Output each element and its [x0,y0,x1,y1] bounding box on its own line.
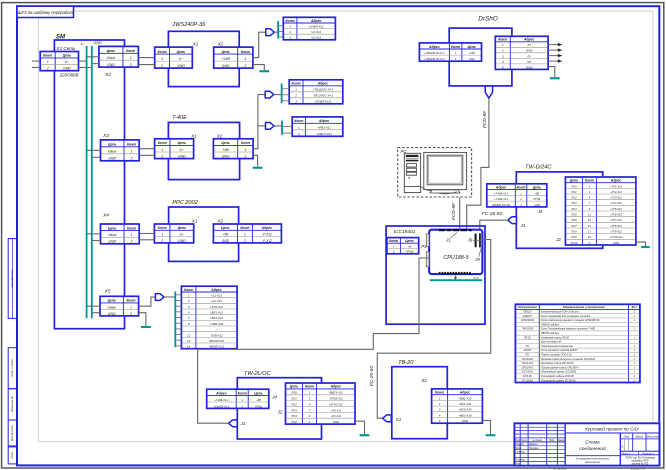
connector X2 (PPC output w/addresses) [213,224,281,243]
svg-text:Конт: Конт [435,391,444,395]
connector X5 (SM aux out) [100,296,139,316]
svg-text:FC-20-60: FC-20-60 [369,366,375,387]
plug T40 cable A [265,91,274,98]
wire bus to X4 row1 [87,233,101,235]
svg-text:Ч2-Х11: Ч2-Х11 [311,36,321,40]
wire plugB to bar3 [274,125,282,127]
wire TW2L GND to ground [355,421,365,434]
svg-text:6В/25А каб.вых: 6В/25А каб.вых [541,332,560,335]
wire FC-26-60 to CPU J6 [480,220,508,233]
svg-text:GND: GND [108,240,116,244]
svg-text:Конт: Конт [241,141,250,145]
ticks bar2 to table [282,89,290,101]
svg-text:Адрес: Адрес [261,226,273,230]
svg-text:GND: GND [222,239,230,243]
svg-text:GND: GND [108,312,116,316]
svg-text:ICC19301: ICC19301 [394,229,416,235]
dashed box PC [398,148,472,197]
svg-text:+24В: +24В [222,57,231,61]
svg-text:-7В-2Л/ОС-J4-1: -7В-2Л/ОС-J4-1 [313,94,334,98]
svg-text:X1: X1 [190,133,197,138]
svg-text:Цепь: Цепь [221,226,229,230]
connector DrShO outputs [495,36,548,69]
svg-text:ЛО5: ЛО5 [570,213,577,217]
svg-text:Цепь: Цепь [570,179,578,183]
svg-text:Адрес: Адрес [428,45,440,49]
label J1 with leader [445,232,457,242]
svg-text:–: – [215,328,218,332]
svg-text:Конт: Конт [389,239,398,243]
svg-text:ЛО10: ЛО10 [569,241,577,245]
svg-text:-Р-Х12: -Р-Х12 [262,239,272,243]
svg-text:Конт: Конт [305,385,314,389]
svg-text:Масса: Масса [636,435,644,439]
svg-text:Цепь: Цепь [108,143,116,147]
svg-text:ЛО8: ЛО8 [570,230,577,234]
svg-text:Конт: Конт [184,288,193,292]
svg-text:2: 2 [160,239,163,243]
wire SM X3 to T40 X1 row1 [139,148,154,150]
wire T40 X2 row2 to ground [253,155,258,166]
svg-text:Лист: Лист [520,439,527,442]
svg-text:CPU188-5: CPU188-5 [522,366,534,369]
svg-text:Цепь: Цепь [108,226,116,230]
svg-text:+ВУ2-Х11: +ВУ2-Х11 [210,316,224,320]
ticks bar to X5 table [175,295,181,346]
svg-text:TB-20: TB-20 [398,360,414,366]
svg-text:Блок шагового привода DrShO: Блок шагового привода DrShO [541,349,577,352]
svg-text:+ГУ4-Х12: +ГУ4-Х12 [610,201,622,205]
svg-text:Разраб.: Разраб. [515,443,524,446]
wire plug to bar [164,296,175,298]
svg-text:Т.контр.: Т.контр. [515,451,525,454]
wire FCD-9F from PC to CPU [459,197,461,230]
wire X1 to bus row2 [79,67,92,69]
wire bus to X4 row2 [92,240,101,242]
svg-text:Выходная плата TW-2L/OC: Выходная плата TW-2L/OC [541,362,574,365]
svg-text:Uвых: Uвых [107,56,116,60]
svg-text:GND: GND [613,241,619,245]
svg-text:2: 2 [392,250,395,254]
block T-40E [168,115,239,180]
ticks bar3 to table [282,127,292,134]
svg-text:+Т-40Е-Х2-2: +Т-40Е-Х2-2 [494,198,509,201]
svg-text:2: 2 [438,402,441,406]
plug JWS 24V cable [266,29,275,36]
wire DrShO GND to ground [548,67,555,78]
svg-text:X1: X1 [395,417,402,422]
svg-text:Адрес: Адрес [459,391,471,395]
svg-text:ТВ-20: ТВ-20 [524,336,531,339]
svg-text:Схема: Схема [585,440,600,446]
svg-text:FCD-9F: FCD-9F [451,202,457,220]
svg-text:соединений: соединений [579,445,606,452]
block ICC19301 [386,226,485,324]
wire X5 row2 to ground [139,313,146,326]
ground TW-2L [360,434,370,436]
wire X1 to bus row1 [79,60,87,62]
svg-text:TW-2L/OC: TW-2L/OC [521,362,533,365]
svg-text:J1: J1 [520,223,526,228]
pads CPU bottom edge connector [439,272,471,275]
connector X2 (SM out to JWS) [99,46,138,67]
svg-text:2: 2 [46,67,49,71]
svg-text:GND: GND [462,419,468,423]
svg-text:11: 11 [588,213,591,217]
svg-text:GND: GND [178,155,186,159]
svg-text:X1: X1 [191,218,198,223]
svg-text:J6: J6 [467,238,473,243]
svg-text:13: 13 [588,218,591,222]
svg-text:+ГУ6-Х12: +ГУ6-Х12 [610,213,622,217]
svg-text:2: 2 [130,157,133,161]
svg-text:+В: +В [408,244,412,248]
svg-text:DrShO: DrShO [478,16,498,23]
plug T40 cable B [266,123,275,130]
table DrShO input addresses [419,43,481,61]
svg-text:ПГНД: ПГНД [406,250,414,254]
wire bus to X5 row2 [92,312,100,314]
svg-text:№ докум.: № докум. [532,439,543,442]
svg-text:17: 17 [588,230,591,234]
svg-text:Наименование и примечание: Наименование и примечание [563,305,605,309]
bus GND line [91,46,93,318]
cable bus bar X5 [174,291,176,347]
svg-text:SCSI: SCSI [473,276,479,280]
svg-text:19: 19 [588,235,591,239]
connector J6 bars [475,233,481,247]
svg-text:ЛО3: ЛО3 [290,408,297,412]
svg-text:Комплектующие УОН-2 баз.узл: Комплектующие УОН-2 баз.узл [541,311,579,314]
svg-text:ЛО9: ЛО9 [570,235,577,239]
svg-text:Конт: Конт [158,226,167,230]
icon PC monitor [421,152,467,193]
svg-text:+6В: +6В [256,399,261,402]
svg-text:Входная плата дискретн сигнало: Входная плата дискретн сигналов TW-D/24C [541,358,595,361]
svg-text:Конт: Конт [292,82,301,86]
top-left reuse stamp [17,6,74,17]
svg-text:ЛО1: ЛО1 [570,190,577,194]
svg-text:X1: X1 [192,41,199,46]
svg-text:ЛО2: ЛО2 [290,402,297,406]
svg-text:2: 2 [130,240,133,244]
ground T-40E [253,167,263,169]
ticks bar1 to table [278,26,283,37]
svg-text:Дата: Дата [557,439,565,442]
svg-text:TW-2L/OC: TW-2L/OC [244,371,272,377]
bus U line [86,46,88,318]
svg-text:Адрес: Адрес [330,385,342,389]
svg-text:Курсовой проект по САУ: Курсовой проект по САУ [585,426,640,432]
svg-text:+ГУ2-Х11: +ГУ2-Х11 [610,190,622,194]
svg-text:-ВСМ2-Х11: -ВСМ2-Х11 [209,345,225,349]
svg-text:+Т-40Е-Х2-1: +Т-40Е-Х2-1 [214,399,229,402]
svg-text:Конт: Конт [126,49,135,53]
svg-text:ПГНД: ПГНД [533,198,540,201]
wire bus to X2 row2 [92,63,99,65]
title block [514,423,659,465]
svg-text:Uвых: Uвых [108,150,117,154]
svg-text:Иванов: Иванов [529,443,538,446]
svg-text:+ЛУВЗП-Х11: +ЛУВЗП-Х11 [315,100,332,104]
svg-text:Блок Госкомнадзора разового пи: Блок Госкомнадзора разового питания Т-40… [541,328,595,331]
svg-text:2: 2 [129,63,132,67]
wire bus to X3 row2 [92,156,101,158]
svg-text:+5В: +5В [223,233,230,237]
svg-text:+6В: +6В [535,192,540,195]
svg-text:Адрес: Адрес [610,179,622,183]
svg-text:Формат А1: Формат А1 [630,466,646,470]
svg-text:J4: J4 [537,209,543,214]
svg-text:Конт: Конт [516,185,525,189]
svg-text:Цепь: Цепь [107,49,115,53]
svg-text:Взам.инв.№: Взам.инв.№ [10,396,14,412]
svg-text:Инв.№ дубл.: Инв.№ дубл. [10,425,14,442]
svg-text:ЛО1: ЛО1 [290,397,297,401]
svg-text:Конт: Конт [158,141,167,145]
svg-text:Цепь: Цепь [533,185,541,189]
svg-text:X2: X2 [104,72,111,78]
wire JWS X2 row1 to plug [253,32,266,57]
connector X4 (SM out to PPC) [101,224,140,244]
svg-text:+СвАСЕ-Х2-2: +СвАСЕ-Х2-2 [214,405,230,408]
svg-text:+РК2-Х11: +РК2-Х11 [459,402,472,406]
svg-text:CPU188-5: CPU188-5 [443,255,469,261]
svg-text:GND: GND [333,420,339,424]
connector X1 (SM mains input) [40,52,78,71]
svg-text:1: 1 [161,57,163,61]
svg-text:+ВДГ4-Х11: +ВДГ4-Х11 [329,391,343,395]
svg-text:Конт: Конт [158,50,167,54]
svg-text:FC-26-60: FC-26-60 [522,379,533,382]
svg-text:РС: РС [526,345,530,348]
svg-text:GND: GND [222,155,230,159]
svg-text:Пров.: Пров. [515,447,522,450]
svg-text:Конт: Конт [585,179,594,183]
svg-text:Монтажный каркас ICC19301: Монтажный каркас ICC19301 [541,371,577,374]
svg-text:Клеммная плата ТВ-20: Клеммная плата ТВ-20 [541,336,569,339]
svg-text:1: 1 [130,305,132,309]
svg-text:J1: J1 [445,237,451,242]
svg-text:-5УВ-Х11: -5УВ-Х11 [210,333,223,337]
wire plug to bar 1 [274,31,278,33]
table T40 cable B addresses [292,117,343,136]
block TW-2L/OC [237,371,321,439]
ground DrShO [550,77,560,79]
svg-text:1: 1 [161,233,163,237]
svg-text:+Л2-Х11: +Л2-Х11 [331,414,342,418]
svg-text:X2: X2 [217,41,224,46]
svg-text:12: 12 [187,333,191,337]
svg-text:Обозначение: Обозначение [518,305,537,309]
arrows DrShO phase outputs [548,43,562,63]
svg-text:Цепь: Цепь [63,54,71,58]
table TWD channel addresses [565,177,636,245]
table T40 cable A addresses [289,80,343,104]
svg-text:Петров: Петров [529,447,539,450]
svg-text:+РВ2-Х11: +РВ2-Х11 [317,126,331,130]
svg-text:Адрес: Адрес [210,288,222,292]
cable bar 1 [277,21,279,38]
svg-text:Копировал: Копировал [553,466,567,470]
wire TWD GND to ground [636,242,646,246]
svg-text:1: 1 [131,150,133,154]
svg-text:T-40E: T-40E [172,115,187,121]
svg-text:+24ВЧ-Х11: +24ВЧ-Х11 [309,25,324,29]
svg-text:Конт: Конт [498,38,507,42]
svg-text:X2: X2 [420,378,427,384]
block PPC 2002 [169,200,239,261]
svg-text:Конт: Конт [286,19,295,23]
svg-text:GND: GND [108,157,116,161]
svg-text:+5Уб-Х11: +5Уб-Х11 [210,305,223,309]
wire bus to X2 row1 [87,56,99,58]
plug X1 TB-20 [383,415,392,422]
wire plugA to bar2 [274,94,282,96]
svg-text:PPC 2002: PPC 2002 [172,200,198,206]
svg-text:1: 1 [244,233,246,237]
svg-text:Подп.: Подп. [549,439,556,442]
svg-text:GND: GND [469,58,475,61]
svg-text:Т40-25/30: Т40-25/30 [522,328,534,331]
svg-text:Адрес: Адрес [495,185,507,189]
svg-text:U~: U~ [179,57,184,61]
svg-text:220/380В: 220/380В [59,73,79,78]
svg-text:U~: U~ [65,60,70,64]
wire branch to plug3 [258,125,266,127]
svg-text:Цепь: Цепь [405,239,413,243]
svg-text:Адрес: Адрес [310,19,322,23]
svg-text:+7В-Д/24С-J4-1: +7В-Д/24С-J4-1 [313,88,334,92]
svg-text:Интерфейс кабель FC-26-60: Интерфейс кабель FC-26-60 [541,379,576,382]
svg-text:Цепь: Цепь [467,45,475,49]
table X5 cable addresses [181,286,237,349]
svg-text:-Р-Х11: -Р-Х11 [262,233,272,237]
svg-text:24В/5А каб.вых: 24В/5А каб.вых [540,323,560,326]
svg-text:+ГУ9-Х12: +ГУ9-Х12 [610,230,622,234]
svg-text:GND: GND [107,63,115,67]
wire bus to X3 row1 [87,149,101,151]
svg-text:+24В: +24В [469,52,475,55]
svg-text:+ГУ8-Х12: +ГУ8-Х12 [610,224,622,228]
svg-text:2: 2 [160,64,163,68]
wire TB20 GND to ground [482,420,490,434]
svg-text:Подп.: Подп. [10,451,14,459]
svg-text:+ГУ3-Х12: +ГУ3-Х12 [610,196,622,200]
svg-text:Процессорная плата CPU188-5: Процессорная плата CPU188-5 [541,366,579,369]
svg-text:+РВ2Л-Х11: +РВ2Л-Х11 [316,132,332,136]
svg-text:Цепь: Цепь [107,299,115,303]
svg-text:Конт: Конт [240,226,249,230]
left margin stamp boxes [8,239,17,464]
svg-text:Блок Госкомнадз для установки: Блок Госкомнадз для установки питания [541,315,591,318]
svg-text:GND: GND [177,64,185,68]
svg-text:Адрес: Адрес [523,38,535,42]
svg-text:Конт: Конт [241,50,250,54]
svg-text:Пакет отладки ПОЛ-2.01: Пакет отладки ПОЛ-2.01 [541,354,572,357]
svg-text:U~: U~ [180,233,185,237]
svg-text:2: 2 [297,132,300,136]
wire CPU P-tab to TW-2L J1 [198,258,430,423]
svg-text:J2: J2 [555,237,561,242]
svg-text:2: 2 [129,312,132,316]
table 24V cable addresses [283,17,335,40]
svg-text:+ОВ4-Х11: +ОВ4-Х11 [210,322,224,326]
svg-text:X5: X5 [104,288,111,294]
svg-text:X2: X2 [216,133,223,138]
svg-text:+ГУ10-Х11: +ГУ10-Х11 [609,235,623,239]
svg-text:GND: GND [94,41,102,45]
svg-text:+Т-40Е-Х2-1: +Т-40Е-Х2-1 [494,192,509,195]
svg-text:X3: X3 [102,133,109,139]
connector X2 (JWS output) [214,47,253,68]
svg-text:TW-D/24C: TW-D/24C [522,358,534,361]
svg-text:JWS240/36: JWS240/36 [521,319,535,322]
svg-text:Цепь: Цепь [178,226,186,230]
svg-text:FC-26-60: FC-26-60 [482,211,503,217]
connector X1 (T-40E input) [155,139,194,159]
table ICC power [387,238,419,254]
svg-text:Конт: Конт [238,391,247,395]
svg-text:+Л3-Х11: +Л3-Х11 [331,408,342,412]
svg-text:J9: J9 [474,257,480,262]
connector X3 (SM out to T-40E) [101,140,140,161]
svg-text:+ГУ1-Х12: +ГУ1-Х12 [610,184,622,188]
svg-text:TW-D/24C: TW-D/24C [525,164,552,170]
svg-text:Конт: Конт [127,143,136,147]
svg-text:Адрес: Адрес [215,391,227,395]
svg-text:+24В: +24В [534,204,540,207]
block DrShO [449,16,512,86]
svg-text:Изм: Изм [515,439,520,442]
svg-text:X2: X2 [216,218,223,223]
table TWD power inputs [487,184,547,207]
svg-text:+JWS240-36-Х2-2: +JWS240-36-Х2-2 [424,58,445,61]
svg-text:ICC19301: ICC19301 [522,371,534,374]
ground JWS [259,70,269,72]
svg-text:2: 2 [187,299,190,303]
svg-text:Адрес: Адрес [317,82,329,86]
svg-text:Персональный компьютер: Персональный компьютер [541,345,573,348]
cable bar 3 [281,121,283,135]
svg-text:УВЗЦ-2: УВЗЦ-2 [523,311,532,314]
wire SM X3 to T40 X1 row2 [139,154,154,156]
svg-text:FCD-9F: FCD-9F [482,110,488,128]
plug J1 TW-2L [229,420,238,427]
block TB-20 [392,360,448,439]
svg-text:Лит: Лит [623,435,630,439]
svg-text:Конт: Конт [126,299,135,303]
tabs CPU left [426,234,429,267]
svg-text:J2: J2 [277,410,283,415]
svg-text:+ВК2-Х16: +ВК2-Х16 [458,413,471,417]
wire SM X4 to PPC X1 row2 [139,239,154,241]
wire FCD-9F from DrShO to CPU [467,98,489,230]
svg-text:J1: J1 [240,421,246,426]
svg-text:ASML87: ASML87 [522,315,533,318]
svg-text:ЛО7: ЛО7 [570,224,577,228]
svg-text:Датчик борт-об: Датчик борт-об [540,341,561,344]
svg-text:GND: GND [178,239,186,243]
svg-text:U~: U~ [180,148,185,152]
svg-text:+ВУ1-Х11: +ВУ1-Х11 [210,311,224,315]
svg-text:-ОГМ3-Х11: -ОГМ3-Х11 [329,397,343,401]
svg-text:+ВСМ3-Х11: +ВСМ3-Х11 [208,339,224,343]
wire SM X2 to JWS X1 row1 [138,57,154,59]
ground X5 [141,326,151,328]
wire SM X4 to PPC X1 row1 [139,233,154,235]
svg-text:Интерфейс кабель FCD-9F: Интерфейс кабель FCD-9F [541,375,574,378]
